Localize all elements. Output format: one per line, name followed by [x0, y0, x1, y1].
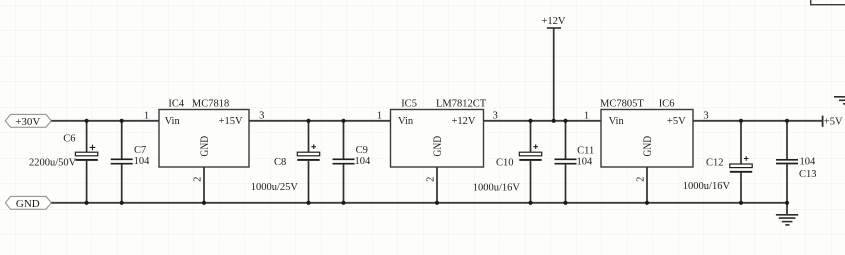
capacitor C6 (electrolytic 2200u/50V) [29, 121, 98, 203]
svg-text:+12V: +12V [451, 116, 475, 127]
junction C6 bottom [85, 201, 89, 205]
svg-text:C12: C12 [706, 157, 724, 168]
junction C8 bottom [306, 201, 310, 205]
wire top rail: +30V port to IC4 pin 1 [51, 120, 159, 122]
box corner fragment (top right, clipped) [811, 0, 845, 5]
capacitor C9 (104) [333, 121, 372, 203]
junction C12 top [739, 119, 743, 123]
wire top rail: IC6 pin 3 to +5V terminal [693, 120, 823, 122]
terminal +5V [823, 116, 843, 128]
ground (bottom right) [776, 203, 798, 225]
svg-text:C7: C7 [134, 145, 146, 156]
svg-text:IC5: IC5 [401, 98, 417, 109]
svg-text:2: 2 [193, 177, 204, 182]
regulator box IC6 [600, 98, 693, 167]
svg-text:+12V: +12V [541, 16, 565, 27]
wire IC6 pin 2 to GND rail [646, 167, 648, 203]
svg-text:GND: GND [16, 198, 40, 210]
svg-text:MC7805T: MC7805T [600, 98, 644, 109]
pin 3 label IC4 [259, 110, 264, 121]
junction IC6 pin 2 [645, 201, 649, 205]
svg-text:1000u/25V: 1000u/25V [251, 182, 299, 193]
svg-text:1000u/16V: 1000u/16V [473, 182, 521, 193]
junction C12 bottom [739, 201, 743, 205]
svg-text:104: 104 [355, 156, 372, 167]
capacitor C8 (electrolytic 1000u/25V) [251, 121, 320, 203]
capacitor C12 (electrolytic 1000u/16V) [683, 121, 752, 203]
junction +12V node [552, 119, 556, 123]
svg-text:1: 1 [584, 110, 589, 121]
wire IC4 pin 2 to GND rail [203, 167, 205, 203]
svg-text:GND: GND [430, 136, 444, 157]
svg-text:+15V: +15V [219, 116, 243, 127]
junction C10 top [528, 119, 532, 123]
junction C9 bottom [341, 201, 345, 205]
svg-text:3: 3 [703, 110, 708, 121]
svg-text:104: 104 [134, 156, 151, 167]
svg-text:2: 2 [636, 177, 647, 182]
capacitor C7 (104) [111, 121, 150, 203]
port GND [5, 196, 51, 210]
svg-text:3: 3 [493, 110, 498, 121]
pin 1 label IC6 [584, 110, 589, 121]
svg-text:MC7818: MC7818 [192, 98, 229, 109]
pin 2 label IC4 [193, 177, 204, 182]
svg-text:1: 1 [144, 110, 149, 121]
junction C11 bottom [563, 201, 567, 205]
svg-text:2200u/50V: 2200u/50V [29, 157, 77, 168]
svg-text:GND: GND [640, 136, 654, 157]
ground (top right, clipped) [834, 97, 845, 104]
wire top rail: IC4 pin 3 to IC5 pin 1 [249, 120, 392, 122]
wire top rail: IC5 pin 3 to IC6 pin 1 [483, 120, 602, 122]
wire bottom GND rail [51, 202, 787, 204]
svg-text:C8: C8 [274, 157, 286, 168]
junction C8 top [306, 119, 310, 123]
svg-text:+30V: +30V [15, 116, 40, 128]
junction IC4 pin 2 [202, 201, 206, 205]
port +30V [5, 114, 51, 128]
capacitor C11 (104) [555, 121, 595, 203]
svg-text:C13: C13 [799, 169, 817, 180]
svg-text:LM7812CT: LM7812CT [436, 98, 487, 109]
wire IC5 pin 2 to GND rail [436, 167, 438, 203]
svg-text:1000u/16V: 1000u/16V [683, 181, 731, 192]
svg-text:C6: C6 [63, 134, 75, 145]
op-amp-style regulator box IC4 [159, 98, 249, 167]
junction C13 top [785, 119, 789, 123]
junction C9 top [341, 119, 345, 123]
svg-text:+5V: +5V [667, 116, 686, 127]
regulator box IC5 [391, 98, 487, 167]
svg-text:2: 2 [426, 177, 437, 182]
junction C10 bottom [528, 201, 532, 205]
junction C6 top [85, 119, 89, 123]
svg-text:C11: C11 [577, 145, 594, 156]
svg-text:GND: GND [197, 136, 211, 157]
pin 3 label IC6 [703, 110, 708, 121]
svg-text:C10: C10 [496, 158, 514, 169]
junction IC5 pin 2 [435, 201, 439, 205]
svg-text:1: 1 [377, 110, 382, 121]
svg-text:104: 104 [800, 156, 817, 167]
svg-text:IC6: IC6 [659, 98, 675, 109]
junction C13 bottom / ground node [785, 201, 789, 205]
power +12V [541, 16, 565, 121]
pin 1 label IC5 [377, 110, 382, 121]
pin 2 label IC5 [426, 177, 437, 182]
svg-text:104: 104 [577, 156, 594, 167]
svg-text:Vin: Vin [609, 116, 625, 127]
svg-text:Vin: Vin [165, 116, 181, 127]
svg-text:IC4: IC4 [168, 98, 185, 109]
capacitor C13 (104) [776, 121, 817, 203]
pin 3 label IC5 [493, 110, 498, 121]
svg-text:3: 3 [259, 110, 264, 121]
junction C7 bottom [120, 201, 124, 205]
svg-text:Vin: Vin [398, 116, 414, 127]
capacitor C10 (electrolytic 1000u/16V) [473, 121, 542, 203]
svg-text:+5V: +5V [824, 117, 843, 128]
pin 2 label IC6 [636, 177, 647, 182]
junction C11 top [563, 119, 567, 123]
junction C7 top [120, 119, 124, 123]
pin 1 label IC4 [144, 110, 149, 121]
svg-text:C9: C9 [356, 145, 368, 156]
